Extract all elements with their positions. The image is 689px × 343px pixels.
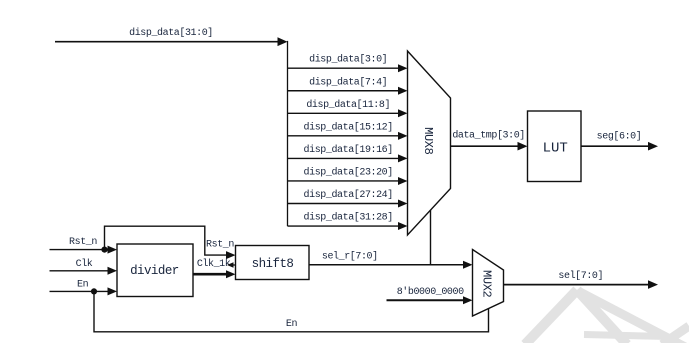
svg-text:LUT: LUT [543, 141, 568, 157]
wire Clk_1k [193, 258, 236, 278]
svg-text:sel_r[7:0]: sel_r[7:0] [322, 251, 378, 263]
svg-text:disp_data[7:4]: disp_data[7:4] [309, 76, 387, 88]
svg-text:Clk: Clk [76, 258, 93, 270]
svg-text:sel[7:0]: sel[7:0] [558, 270, 603, 282]
svg-text:divider: divider [130, 264, 179, 278]
svg-text:disp_data[31:28]: disp_data[31:28] [304, 212, 393, 224]
wire Rst_n bypass to shift8 [105, 226, 236, 259]
svg-text:En: En [77, 280, 89, 291]
svg-text:disp_data[19:16]: disp_data[19:16] [304, 144, 393, 156]
stub arrow at shift8 (left-pointing) [227, 262, 236, 267]
wire Clk input [50, 258, 118, 275]
wire disp_data[3:0] [288, 54, 408, 72]
wire disp_data[19:16] [288, 144, 408, 163]
svg-text:disp_data[27:24]: disp_data[27:24] [304, 189, 393, 201]
watermark [525, 290, 689, 343]
wire disp_data[31:28] [288, 212, 408, 230]
wire disp_data[27:24] [288, 189, 408, 208]
svg-text:disp_data[31:0]: disp_data[31:0] [129, 27, 213, 39]
svg-text:8'b0000_0000: 8'b0000_0000 [397, 286, 464, 298]
wire MUX8 select from sel_r [430, 210, 432, 265]
wire En input [50, 280, 118, 296]
svg-text:Rst_n: Rst_n [69, 237, 97, 248]
svg-text:disp_data[11:8]: disp_data[11:8] [306, 99, 390, 111]
svg-text:MUX2: MUX2 [480, 270, 494, 298]
junction Rst_n node [101, 247, 107, 253]
svg-text:shift8: shift8 [252, 257, 294, 271]
wire En feedback [94, 291, 489, 331]
wire disp_data[11:8] [288, 99, 408, 118]
wire disp_data[23:20] [288, 167, 408, 185]
svg-text:Clk_1k: Clk_1k [197, 258, 231, 270]
svg-text:disp_data[3:0]: disp_data[3:0] [309, 54, 387, 66]
wire disp_data[7:4] [288, 76, 408, 94]
svg-text:MUX8: MUX8 [421, 127, 435, 155]
svg-text:seg[6:0]: seg[6:0] [597, 131, 642, 143]
mux MUX8 [408, 51, 451, 235]
svg-text:disp_data[15:12]: disp_data[15:12] [304, 121, 393, 133]
wire seg[6:0] [581, 131, 658, 151]
wire disp_data[15:12] [288, 121, 408, 139]
wire data_tmp[3:0] [451, 130, 528, 151]
svg-text:disp_data[23:20]: disp_data[23:20] [304, 167, 393, 179]
node bus fanout vertical [287, 41, 289, 226]
block LUT [528, 111, 582, 182]
wire Rst_n input [50, 237, 118, 254]
svg-text:Rst_n: Rst_n [206, 239, 234, 250]
block divider [117, 244, 193, 297]
wire sel[7:0] [504, 270, 659, 289]
wire sel_r[7:0] [309, 251, 473, 269]
block shift8 [236, 246, 310, 280]
svg-text:data_tmp[3:0]: data_tmp[3:0] [452, 130, 525, 142]
wire disp_data[31:0] bus [55, 27, 288, 46]
svg-text:En: En [286, 319, 298, 330]
mux MUX2 [473, 250, 504, 317]
junction En node [91, 288, 97, 294]
wire constant 8'b0000_0000 [387, 286, 473, 305]
